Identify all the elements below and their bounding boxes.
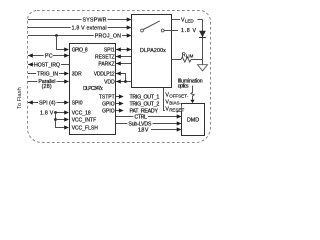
svg-text:GPIO: GPIO <box>102 108 115 114</box>
svg-text:BIAS-: BIAS- <box>169 100 181 105</box>
svg-text:SYSPWR: SYSPWR <box>83 17 107 23</box>
svg-text:VCC_FLSH: VCC_FLSH <box>72 126 99 132</box>
svg-text:I2C: I2C <box>45 52 53 60</box>
svg-text:TSTPT: TSTPT <box>99 94 115 100</box>
svg-text:TRIG_OUT_1: TRIG_OUT_1 <box>130 95 160 101</box>
svg-text:VDDLP12: VDDLP12 <box>94 71 115 77</box>
svg-text:PARKZ: PARKZ <box>98 61 114 67</box>
svg-text:DLPC347x: DLPC347x <box>83 86 103 92</box>
svg-text:VCC_18: VCC_18 <box>72 111 91 117</box>
svg-text:DLPA200x: DLPA200x <box>140 48 166 54</box>
svg-text:RESETZ: RESETZ <box>95 54 115 60</box>
svg-text:RESET: RESET <box>169 107 184 112</box>
svg-text:VDD: VDD <box>104 79 115 85</box>
svg-text:1.8 V: 1.8 V <box>40 111 54 117</box>
svg-text:GPIO: GPIO <box>102 101 115 107</box>
svg-text:SPI (4): SPI (4) <box>39 101 56 107</box>
svg-text:SPI1: SPI1 <box>104 47 115 53</box>
svg-text:optics: optics <box>178 84 189 90</box>
svg-text:(28): (28) <box>42 84 52 90</box>
svg-text:1.8 V: 1.8 V <box>181 28 196 34</box>
svg-text:CTRL: CTRL <box>134 115 147 121</box>
svg-text:LIM: LIM <box>186 54 194 59</box>
svg-text:1.8 V: 1.8 V <box>138 128 149 134</box>
svg-text:DMD: DMD <box>187 118 199 124</box>
svg-text:TRIG_IN: TRIG_IN <box>37 72 58 78</box>
svg-text:VCC_INTF: VCC_INTF <box>72 118 96 124</box>
svg-text:1.8 V external: 1.8 V external <box>72 25 107 31</box>
svg-text:HOST_IRQ: HOST_IRQ <box>34 63 60 69</box>
svg-text:GPIO_8: GPIO_8 <box>72 47 88 53</box>
svg-text:SPI0: SPI0 <box>72 100 83 106</box>
svg-text:OFFSET-: OFFSET- <box>169 93 189 98</box>
svg-text:To Flash: To Flash <box>17 87 23 109</box>
svg-text:3DR: 3DR <box>72 71 82 77</box>
svg-text:TRIG_OUT_2: TRIG_OUT_2 <box>130 102 160 108</box>
svg-text:PROJ_ON: PROJ_ON <box>95 33 121 39</box>
svg-text:LED: LED <box>185 19 195 24</box>
